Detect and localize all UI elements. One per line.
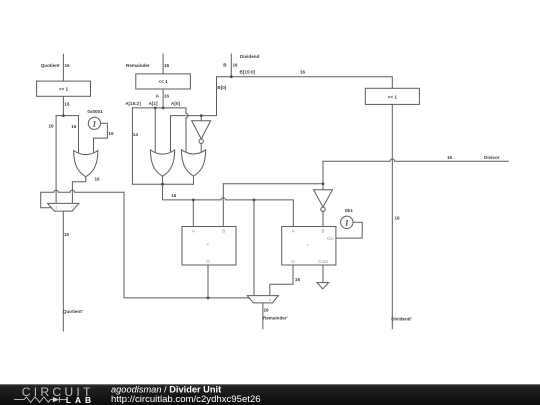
svg-text:16: 16	[65, 63, 71, 68]
svg-text:1: 1	[253, 298, 255, 302]
svg-text:LAB: LAB	[66, 395, 95, 405]
svg-text:<: <	[207, 242, 210, 247]
svg-text:B[15:0]: B[15:0]	[240, 70, 256, 75]
svg-text:16: 16	[71, 124, 77, 129]
svg-text:16: 16	[300, 70, 306, 75]
svg-text:16: 16	[395, 216, 401, 221]
svg-text:0x0001: 0x0001	[87, 109, 103, 114]
svg-text:16: 16	[108, 131, 114, 136]
svg-text:0: 0	[269, 298, 271, 302]
svg-text:A[0]: A[0]	[171, 101, 180, 106]
svg-text:1: 1	[92, 118, 96, 128]
svg-text:Quotient': Quotient'	[63, 309, 83, 314]
svg-text:16: 16	[164, 93, 170, 98]
svg-text:Cout: Cout	[318, 259, 328, 264]
svg-text:16: 16	[64, 102, 70, 107]
svg-text:14: 14	[133, 132, 139, 137]
svg-text:O: O	[291, 259, 295, 264]
svg-text:1: 1	[55, 206, 57, 210]
svg-text:Divisor: Divisor	[484, 155, 500, 160]
svg-text:<< 1: << 1	[388, 94, 398, 99]
svg-text:B: B	[321, 228, 324, 233]
svg-text:http://circuitlab.com/c2ydhxc9: http://circuitlab.com/c2ydhxc95et26	[111, 394, 261, 404]
svg-text:B[0]: B[0]	[217, 85, 226, 90]
svg-text:16: 16	[95, 176, 101, 181]
svg-text:16: 16	[264, 308, 270, 313]
svg-text:A[15:2]: A[15:2]	[125, 101, 141, 106]
svg-text:<< 1: << 1	[59, 86, 69, 91]
svg-text:16: 16	[295, 277, 301, 282]
svg-text:Cin: Cin	[327, 236, 334, 241]
svg-text:Quotient: Quotient	[41, 63, 60, 68]
svg-text:0b1: 0b1	[345, 208, 353, 213]
svg-text:B: B	[222, 228, 225, 233]
svg-text:16: 16	[49, 124, 55, 129]
svg-text:Dividend: Dividend	[240, 54, 260, 59]
svg-text:Remainder: Remainder	[126, 63, 150, 68]
svg-text:Remainder': Remainder'	[263, 316, 288, 321]
svg-text:16: 16	[233, 63, 239, 68]
svg-text:16: 16	[64, 232, 70, 237]
svg-text:16: 16	[164, 63, 170, 68]
svg-text:0: 0	[71, 206, 73, 210]
svg-text:1: 1	[345, 217, 349, 227]
svg-text:+: +	[306, 242, 309, 247]
svg-text:O: O	[206, 259, 210, 264]
svg-text:16: 16	[447, 155, 453, 160]
svg-text:<< 1: << 1	[158, 79, 168, 84]
svg-text:A[1]: A[1]	[149, 101, 158, 106]
svg-text:16: 16	[171, 193, 177, 198]
svg-text:Dividend': Dividend'	[391, 316, 412, 321]
